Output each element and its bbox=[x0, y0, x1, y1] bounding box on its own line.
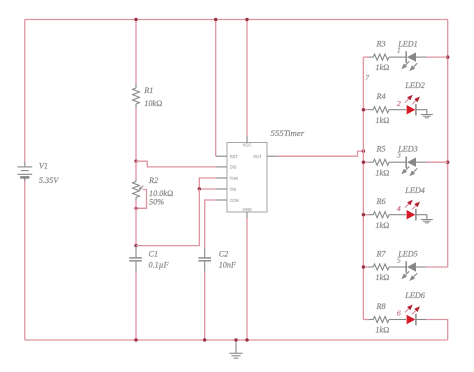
svg-text:LED5: LED5 bbox=[397, 249, 418, 258]
node: rail/RST junction bbox=[214, 18, 217, 21]
wire: R2 to C1 junction bbox=[135, 201, 137, 246]
wire: R6 to LED4 bbox=[396, 214, 406, 216]
node: THR/TRI junction bbox=[198, 187, 201, 190]
svg-text:R1: R1 bbox=[143, 86, 153, 95]
node: wiper junction bbox=[134, 207, 137, 210]
svg-text:555Timer: 555Timer bbox=[271, 128, 305, 138]
LED5 bbox=[401, 261, 417, 281]
wire: CON pin to C2 bbox=[205, 200, 216, 248]
wire: C1 to ground rail bbox=[135, 271, 137, 340]
wire: R7 to LED5 bbox=[396, 266, 406, 268]
node: bus row 3 junction bbox=[362, 161, 365, 164]
wire: junction to R2 bbox=[135, 161, 137, 178]
ground (main rail) bbox=[230, 340, 243, 358]
svg-text:THR: THR bbox=[230, 176, 238, 181]
svg-text:R4: R4 bbox=[376, 92, 386, 101]
svg-text:1kΩ: 1kΩ bbox=[375, 326, 389, 335]
wire: R2 wiper loop bbox=[136, 190, 147, 209]
node: right bus row1 junction bbox=[446, 55, 449, 58]
node: C1/THR junction bbox=[134, 244, 137, 247]
wire: row 5 from bus to R7 bbox=[363, 266, 369, 268]
svg-text:2: 2 bbox=[397, 99, 401, 108]
capacitor C1 bbox=[129, 246, 142, 272]
svg-text:50%: 50% bbox=[149, 197, 164, 206]
wire: GND pin to rail bbox=[246, 218, 248, 340]
battery V1 bbox=[17, 161, 32, 181]
potentiometer R2 bbox=[133, 179, 144, 201]
wire: THR pin over to vertical bbox=[199, 178, 216, 189]
svg-text:LED2: LED2 bbox=[404, 81, 425, 90]
wire: top supply rail bbox=[25, 19, 448, 21]
svg-text:R7: R7 bbox=[376, 249, 387, 258]
wire: row 3 from bus to R5 bbox=[363, 161, 369, 163]
ground (LED2) bbox=[421, 115, 433, 118]
wire: row 2 from bus to R4 bbox=[363, 109, 369, 111]
node: C1/rail junction bbox=[134, 338, 137, 341]
node: OUT/bus junction bbox=[362, 149, 365, 152]
node: bus row 2 junction bbox=[362, 108, 365, 111]
IC U1 555Timer bbox=[216, 137, 278, 219]
ground (LED4) bbox=[421, 220, 433, 223]
svg-text:DIS: DIS bbox=[230, 165, 237, 170]
svg-text:6: 6 bbox=[397, 309, 401, 318]
svg-text:R6: R6 bbox=[376, 197, 387, 206]
svg-text:0.1µF: 0.1µF bbox=[149, 261, 170, 270]
resistor R1 bbox=[133, 83, 140, 107]
svg-text:LED1: LED1 bbox=[397, 40, 418, 49]
wire: left rail (battery branch) bbox=[24, 20, 26, 341]
resistor R3 bbox=[369, 54, 396, 60]
svg-text:5.35V: 5.35V bbox=[39, 176, 59, 185]
capacitor C2 bbox=[198, 248, 211, 272]
LED3 bbox=[401, 156, 417, 176]
node: R1/R2/DIS junction bbox=[134, 160, 137, 163]
svg-text:GND: GND bbox=[242, 207, 251, 212]
svg-text:CON: CON bbox=[230, 198, 239, 203]
wire: row 1 from bus to R3 bbox=[363, 56, 369, 58]
wire: R4 to LED2 bbox=[396, 109, 406, 111]
svg-text:TRI: TRI bbox=[230, 187, 237, 192]
svg-text:R5: R5 bbox=[376, 145, 386, 154]
svg-text:C1: C1 bbox=[149, 250, 159, 259]
svg-text:1kΩ: 1kΩ bbox=[375, 63, 389, 72]
svg-text:10kΩ: 10kΩ bbox=[144, 99, 162, 108]
wire: R3 to LED1 bbox=[396, 56, 406, 58]
wire: top rail to R1 bbox=[135, 20, 137, 84]
LED4 bbox=[405, 200, 420, 221]
wire: R1 to junction bbox=[135, 108, 137, 162]
wire: LED2 to ground bbox=[417, 110, 427, 115]
node: rail/VCC junction bbox=[245, 18, 248, 21]
wire: LED3 to right bus bbox=[416, 161, 426, 163]
resistor R4 bbox=[369, 107, 396, 113]
wire: row 4 from bus to R6 bbox=[363, 214, 369, 216]
resistor R6 bbox=[369, 212, 396, 218]
svg-text:1kΩ: 1kΩ bbox=[375, 221, 389, 230]
svg-text:R3: R3 bbox=[376, 40, 386, 49]
wire: LED6 to bottom rail bbox=[417, 319, 427, 321]
node: right bus row3 junction bbox=[446, 161, 449, 164]
svg-text:VCC: VCC bbox=[243, 143, 252, 148]
wire: top rail to VCC bbox=[246, 20, 248, 137]
svg-text:LED4: LED4 bbox=[404, 186, 425, 195]
svg-text:C2: C2 bbox=[219, 250, 229, 259]
svg-text:1kΩ: 1kΩ bbox=[375, 273, 389, 282]
wire: THR/TRI down and over to C1 bbox=[136, 189, 199, 246]
svg-text:OUT: OUT bbox=[253, 154, 262, 159]
LED6 bbox=[405, 305, 420, 326]
wire: LED5 to right bus bbox=[416, 266, 426, 268]
wire: junction to DIS pin bbox=[136, 161, 216, 167]
wire: right LED bus from top rail bbox=[447, 20, 449, 268]
node: C2/rail junction bbox=[203, 338, 206, 341]
svg-text:LED3: LED3 bbox=[397, 145, 418, 154]
svg-text:RST: RST bbox=[230, 154, 239, 159]
resistor R8 bbox=[369, 317, 396, 323]
svg-text:1kΩ: 1kΩ bbox=[375, 168, 389, 177]
node: ground/rail junction bbox=[234, 338, 237, 341]
wire: TRI pin bbox=[199, 188, 216, 190]
node: junction top rail / R1 bbox=[134, 18, 137, 21]
svg-text:V1: V1 bbox=[39, 162, 48, 171]
svg-text:LED6: LED6 bbox=[404, 291, 425, 300]
svg-text:R2: R2 bbox=[148, 176, 158, 185]
node: GND/rail junction bbox=[245, 338, 248, 341]
svg-text:7: 7 bbox=[365, 73, 370, 82]
LED1 bbox=[401, 51, 417, 71]
node: bus row 5 junction bbox=[362, 265, 365, 268]
svg-text:10nF: 10nF bbox=[219, 261, 237, 270]
wire: C2 to ground rail bbox=[204, 271, 206, 340]
svg-text:4: 4 bbox=[397, 204, 401, 213]
wire: top rail to RST bbox=[215, 20, 217, 157]
resistor R5 bbox=[369, 159, 396, 165]
wire: R8 to LED6 bbox=[396, 319, 406, 321]
wire: LED4 to ground bbox=[417, 215, 427, 220]
wire: bottom ground rail bbox=[25, 339, 448, 341]
wire: R5 to LED3 bbox=[396, 161, 406, 163]
svg-text:1kΩ: 1kΩ bbox=[375, 116, 389, 125]
LED2 bbox=[405, 95, 420, 116]
node: bus row 4 junction bbox=[362, 213, 365, 216]
resistor R7 bbox=[369, 264, 396, 270]
wire: LED1 to right bus bbox=[416, 56, 426, 58]
wire: OUT pin to LED bus bbox=[278, 151, 364, 156]
svg-text:R8: R8 bbox=[376, 302, 386, 311]
wire: left LED bus bbox=[362, 57, 364, 319]
wire: row 6 from bus to R8 bbox=[363, 319, 369, 321]
